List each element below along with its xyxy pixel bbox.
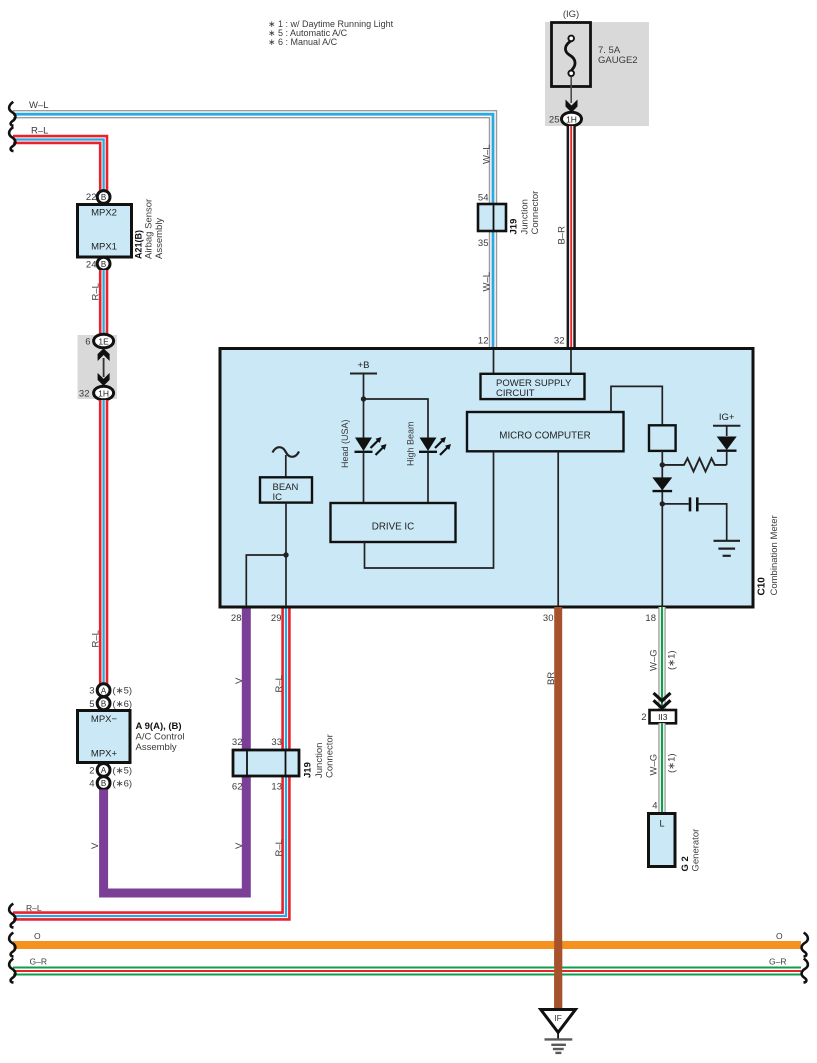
ground internal bbox=[714, 540, 741, 542]
svg-text:+B: +B bbox=[358, 360, 370, 371]
svg-text:13: 13 bbox=[271, 782, 282, 793]
diode mid bbox=[652, 477, 672, 490]
svg-text:4: 4 bbox=[652, 801, 657, 812]
svg-text:32: 32 bbox=[232, 737, 243, 748]
svg-text:1H: 1H bbox=[566, 114, 577, 124]
svg-text:∗ 6 : Manual A/C: ∗ 6 : Manual A/C bbox=[268, 37, 338, 47]
LED Head (USA) bbox=[355, 437, 387, 455]
wire R-L mid bbox=[99, 270, 108, 336]
driver square bbox=[649, 425, 676, 451]
svg-text:A 9(A), (B): A 9(A), (B) bbox=[136, 721, 182, 732]
svg-text:L: L bbox=[659, 819, 664, 829]
svg-text:BR: BR bbox=[546, 672, 557, 685]
svg-text:4: 4 bbox=[89, 779, 94, 790]
svg-text:A/C Control: A/C Control bbox=[136, 732, 185, 743]
svg-text:Junction: Junction bbox=[314, 743, 325, 778]
svg-text:32: 32 bbox=[79, 389, 90, 400]
svg-text:30: 30 bbox=[543, 613, 554, 624]
capacitor bbox=[662, 503, 688, 505]
svg-text:R–L: R–L bbox=[31, 126, 48, 137]
wire R-L lower bbox=[99, 400, 108, 684]
airbag sensor assembly A21(B) bbox=[78, 205, 132, 258]
drive ic box bbox=[331, 503, 456, 542]
svg-text:33: 33 bbox=[271, 737, 282, 748]
power supply circuit box bbox=[481, 374, 585, 399]
svg-text:R–L: R–L bbox=[274, 675, 285, 692]
svg-text:1H: 1H bbox=[98, 388, 109, 398]
fuse GAUGE2 (IG) bbox=[552, 9, 638, 86]
svg-text:Combination Meter: Combination Meter bbox=[769, 515, 780, 595]
svg-text:25: 25 bbox=[549, 115, 560, 126]
fuse block gray background bbox=[545, 22, 649, 126]
svg-text:3: 3 bbox=[89, 686, 94, 697]
svg-text:V: V bbox=[234, 842, 245, 849]
svg-text:32: 32 bbox=[554, 336, 565, 347]
svg-text:Generator: Generator bbox=[691, 829, 702, 872]
svg-text:C10: C10 bbox=[757, 577, 768, 596]
svg-text:High Beam: High Beam bbox=[406, 421, 416, 466]
svg-text:MPX+: MPX+ bbox=[91, 749, 118, 760]
svg-text:B: B bbox=[101, 700, 106, 709]
svg-text:62: 62 bbox=[232, 782, 243, 793]
connector 1H bbox=[94, 386, 114, 400]
svg-text:35: 35 bbox=[478, 238, 489, 249]
junction connector J19 box bbox=[478, 204, 506, 231]
svg-text:G–R: G–R bbox=[30, 957, 47, 967]
svg-text:IG+: IG+ bbox=[719, 412, 735, 423]
svg-text:B: B bbox=[101, 193, 106, 202]
svg-text:J19: J19 bbox=[509, 219, 520, 235]
brace left W-L bbox=[9, 102, 15, 126]
svg-text:R–L: R–L bbox=[26, 903, 42, 913]
svg-text:28: 28 bbox=[231, 613, 242, 624]
wire square to node bbox=[661, 451, 663, 607]
svg-text:J19: J19 bbox=[303, 762, 314, 778]
svg-text:29: 29 bbox=[271, 613, 282, 624]
svg-text:O: O bbox=[776, 931, 783, 941]
svg-text:A: A bbox=[101, 766, 107, 775]
svg-text:V: V bbox=[234, 677, 245, 684]
svg-text:R–L: R–L bbox=[90, 630, 101, 647]
svg-text:Head (USA): Head (USA) bbox=[340, 419, 350, 468]
svg-text:A21(B): A21(B) bbox=[134, 230, 144, 259]
node dot bbox=[660, 501, 665, 506]
svg-text:B: B bbox=[101, 779, 106, 788]
wire BR over buses bbox=[554, 940, 562, 1009]
wire micro computer to pin30 bbox=[557, 452, 559, 607]
svg-text:W–L: W–L bbox=[482, 272, 493, 292]
svg-text:W–G: W–G bbox=[649, 754, 660, 776]
svg-text:(∗6): (∗6) bbox=[113, 699, 133, 710]
generator G2 bbox=[649, 814, 676, 867]
wire W-L bbox=[13, 114, 493, 349]
svg-text:Assembly: Assembly bbox=[154, 218, 165, 259]
svg-text:MICRO COMPUTER: MICRO COMPUTER bbox=[499, 431, 590, 442]
micro computer box bbox=[467, 412, 624, 451]
svg-text:GAUGE2: GAUGE2 bbox=[598, 55, 638, 66]
brace left R-L bus bbox=[9, 904, 15, 928]
connector block 1E/1H bbox=[78, 335, 118, 399]
svg-text:IF: IF bbox=[554, 1013, 562, 1023]
svg-text:MPX−: MPX− bbox=[91, 714, 118, 725]
svg-text:24: 24 bbox=[86, 260, 97, 271]
double chevron arrow bbox=[654, 693, 671, 701]
svg-text:2: 2 bbox=[641, 712, 646, 723]
svg-text:Airbag Sensor: Airbag Sensor bbox=[144, 199, 155, 259]
legend note bbox=[268, 19, 394, 47]
BEAN IC box bbox=[260, 477, 312, 502]
wire pin12 to power supply bbox=[493, 350, 495, 373]
wire W-G lower bbox=[658, 723, 665, 813]
svg-text:B–R: B–R bbox=[557, 226, 568, 245]
svg-text:W–G: W–G bbox=[649, 649, 660, 671]
wire to LEDs bbox=[364, 399, 429, 438]
bus O bbox=[13, 941, 801, 949]
svg-text:6: 6 bbox=[85, 337, 90, 348]
brace left R-L bbox=[9, 127, 15, 151]
resistor bbox=[662, 458, 726, 471]
arrows between 1E and 1H bbox=[103, 358, 105, 377]
junction connector J19 bottom box bbox=[233, 750, 299, 776]
bus G-R bbox=[13, 967, 801, 976]
svg-text:CIRCUIT: CIRCUIT bbox=[496, 388, 535, 399]
wire B-R bbox=[567, 126, 576, 349]
svg-text:(∗6): (∗6) bbox=[113, 779, 133, 790]
svg-text:Connector: Connector bbox=[530, 191, 541, 235]
wire micro computer to driver square bbox=[611, 386, 662, 425]
svg-text:W–L: W–L bbox=[29, 100, 49, 111]
svg-text:B: B bbox=[101, 260, 106, 269]
svg-text:MPX1: MPX1 bbox=[91, 242, 117, 253]
svg-text:(∗1): (∗1) bbox=[667, 753, 678, 773]
wire BR bbox=[554, 607, 562, 1009]
svg-text:DRIVE IC: DRIVE IC bbox=[372, 522, 414, 533]
svg-text:(∗5): (∗5) bbox=[113, 765, 133, 776]
wire W-G upper bbox=[658, 607, 665, 710]
svg-text:MPX2: MPX2 bbox=[91, 208, 117, 219]
wire bean ic to pins 28/29 bbox=[285, 503, 287, 606]
svg-text:Junction: Junction bbox=[520, 199, 531, 234]
svg-text:R–L: R–L bbox=[90, 283, 101, 300]
node dot bbox=[361, 396, 366, 401]
svg-text:W–L: W–L bbox=[482, 144, 493, 164]
wires LEDs to drive ic bbox=[363, 452, 365, 503]
svg-text:A: A bbox=[101, 686, 107, 695]
A/C control assembly A9 bbox=[78, 711, 131, 763]
wire drive ic to micro computer bbox=[365, 452, 494, 569]
svg-text:G 2: G 2 bbox=[680, 856, 691, 871]
svg-text:G–R: G–R bbox=[769, 957, 786, 967]
connector 1E bbox=[94, 334, 114, 348]
svg-text:O: O bbox=[34, 931, 41, 941]
combination meter C10 box bbox=[220, 349, 753, 608]
ground IF bbox=[541, 1010, 576, 1053]
wire V violet bbox=[104, 607, 247, 893]
node dot bbox=[283, 552, 288, 557]
svg-text:V: V bbox=[90, 842, 101, 849]
svg-text:18: 18 bbox=[645, 613, 656, 624]
svg-text:1E: 1E bbox=[98, 336, 109, 346]
wire pin32 to power supply bbox=[570, 350, 572, 373]
wire R-L from pin29 to bus bbox=[13, 607, 286, 916]
svg-text:(∗1): (∗1) bbox=[667, 650, 678, 670]
LED High Beam bbox=[419, 437, 451, 455]
svg-text:22: 22 bbox=[86, 192, 97, 203]
svg-text:(∗5): (∗5) bbox=[113, 686, 133, 697]
sine symbol bbox=[273, 447, 300, 457]
svg-text:Connector: Connector bbox=[325, 734, 336, 778]
node dot bbox=[660, 462, 665, 467]
svg-text:12: 12 bbox=[478, 336, 489, 347]
svg-text:54: 54 bbox=[478, 193, 489, 204]
svg-text:2: 2 bbox=[89, 765, 94, 776]
arrow into 1H bbox=[570, 76, 572, 103]
svg-text:5: 5 bbox=[89, 699, 94, 710]
wire R-L upper bbox=[13, 140, 104, 192]
svg-text:R–L: R–L bbox=[274, 839, 285, 856]
brace left O bbox=[9, 933, 15, 957]
svg-text:IC: IC bbox=[273, 492, 283, 503]
svg-text:Assembly: Assembly bbox=[136, 742, 177, 753]
svg-text:(IG): (IG) bbox=[563, 9, 579, 20]
brace right O bbox=[802, 933, 808, 957]
brace left G-R bbox=[9, 959, 15, 983]
brace right G-R bbox=[802, 959, 808, 983]
svg-text:II3: II3 bbox=[658, 712, 668, 722]
